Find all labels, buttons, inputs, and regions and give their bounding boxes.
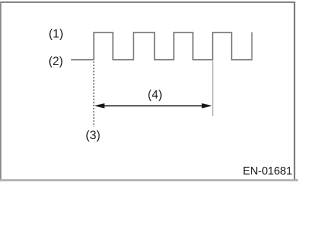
square-wave signal trace	[71, 32, 252, 60]
arrowhead left	[95, 103, 105, 108]
svg-text:(2): (2)	[48, 54, 63, 68]
svg-text:(3): (3)	[86, 128, 101, 142]
dotted reference line at first rising edge	[93, 62, 95, 128]
border frame bottom	[0, 179, 298, 181]
dimension arrow (4) shaft	[100, 105, 206, 107]
svg-text:(4): (4)	[148, 87, 163, 101]
svg-text:(1): (1)	[49, 27, 64, 41]
border frame top	[0, 1, 295, 3]
light reference line at fourth rising edge	[212, 61, 214, 117]
border frame right	[294, 2, 296, 181]
svg-text:EN-01681: EN-01681	[243, 166, 293, 178]
border frame left	[0, 2, 2, 181]
arrowhead right	[202, 103, 212, 108]
